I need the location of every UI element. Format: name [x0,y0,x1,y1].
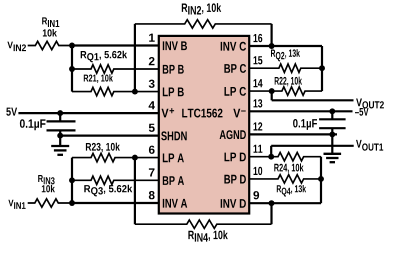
junction dot RQ4 bus [318,176,324,182]
junction dot INV C RIN2 [269,43,275,49]
label -5V [355,108,369,116]
junction dot INV D RIN4 [269,200,275,206]
pin label INV C [221,42,246,51]
pin number 4 [149,101,155,109]
capacitor 0.1uF left lead top [59,113,61,121]
wire VOUT1 tap vertical [270,146,272,157]
pin number 7 [149,168,155,176]
label RQ3, 5.62k [84,185,90,192]
junction dot INV A node [69,200,75,206]
resistor RQ2 13k to pin15 BP C [249,64,322,72]
wire 5V to pin4 V+ [18,112,158,114]
pin label SHDN [161,131,187,140]
label 5V [6,108,17,116]
pin number 12 [254,122,263,130]
label RQ2, 13k [271,50,275,57]
pin label AGND [220,130,246,139]
resistor R24 10k to pin11 LP D [249,153,321,161]
pin label LP B [163,88,184,97]
wire INV D bus vertical [320,157,322,204]
wire RIN4 bus left vertical [134,158,136,225]
junction dot LP D VOUT1 tap [268,154,274,160]
resistor R22 10k to pin14 LP C [249,87,322,95]
wire pin1 INV B from VIN2 node [70,44,159,46]
label RQ4, 13k [277,185,281,192]
label RIN4, 10k [188,231,194,239]
wire pin5 SHDN [60,135,159,137]
label RIN3 10k [38,175,43,182]
pin label INV D [221,199,246,208]
wire RIN4 bus right vertical [270,203,272,224]
wire INV C bus vertical [321,46,323,91]
capacitor 0.1uF left lead bottom [59,130,61,146]
wire VOUT2 [272,99,354,101]
label RIN2, 10k [182,4,188,12]
wire VOUT1 [271,145,354,147]
label VIN2 [7,42,12,49]
pin number 10 [254,167,263,175]
junction dot V+ decoupling [57,110,63,116]
resistor R21 10k to pin3 LP B [72,87,159,95]
label 0.1uF right [293,119,317,130]
pin number 2 [149,57,155,65]
pin label BP C [224,64,246,73]
pin number 6 [149,146,155,154]
wire INV A node column [71,158,73,203]
resistor RQ4 13k to pin10 BP D [249,175,321,183]
junction dot RQ2 bus [319,65,325,71]
junction dot SHDN ground node [57,133,63,139]
wire RIN2 bus left vertical [134,24,136,92]
label R23, 10k [86,143,120,153]
pin label INV B [163,41,187,50]
junction dot RQ1 row [69,66,75,72]
resistor RIN1 10k [28,41,70,49]
pin label BP A [163,176,184,185]
junction dot LP A to RIN4 bus [132,155,138,161]
pin label V+ part number LTC1562 pin label V- [162,109,169,118]
resistor RIN4 10k bottom [135,220,272,228]
junction dot AGND node [329,131,335,137]
label RIN1 10k [42,17,47,24]
label VOUT1 [356,140,362,148]
resistor RQ3 5.62k to pin7 BP A [72,176,159,184]
pin label LP C [225,87,247,96]
pin label LP D [225,153,246,162]
resistor RIN2 10k top [135,20,272,28]
wire INV B node column [71,46,73,92]
label 0.1uF left [20,119,46,130]
label VIN1 [8,200,13,207]
label R22, 10k [275,77,302,87]
wire VOUT2 tap vertical [271,91,273,100]
junction dot RQ3 row [69,177,75,183]
pin label LP A [163,154,184,163]
label R21, 10k [84,74,113,83]
ground symbol right [324,154,342,162]
wire pin8 INV A from VIN1 [70,202,159,204]
wire pin9 INV D [249,202,321,204]
resistor R23 10k to pin6 LP A [72,153,159,161]
capacitor 0.1uF right lead top [331,111,333,119]
pin label INV A [163,199,187,208]
resistor RIN3 10k [28,199,70,207]
pin label BP B [163,65,184,74]
junction dot LP B to RIN2 bus [132,89,138,95]
pin number 14 [254,79,263,87]
pin number 9 [253,191,259,199]
pin number 8 [149,191,155,199]
wire pin12 AGND [249,133,337,135]
capacitor 0.1uF right plates [319,119,346,128]
junction dot V- decoupling [329,108,335,114]
label RQ1, 5.62k [81,51,87,58]
pin number 1 [149,34,155,42]
capacitor 0.1uF left plates [47,121,76,130]
wire pin16 INV C [249,45,322,47]
resistor RQ1 5.62k to pin2 BP B [72,65,159,73]
pin number 3 [149,80,155,88]
wire RIN2 bus right vertical [271,24,273,46]
pin number 11 [254,145,263,153]
label R24, 10k [274,163,303,173]
junction dot INV B node [69,43,75,49]
ground symbol left [51,146,69,155]
chip body U1 LTC1562 [159,36,249,214]
pin number 5 [149,124,155,132]
pin number 15 [254,56,263,64]
pin label BP D [224,175,246,184]
pin number 13 [254,99,263,107]
label VOUT2 [356,99,362,107]
wire pin13 V- to -5V [249,110,352,112]
junction dot LP C VOUT2 tap [269,88,275,94]
capacitor 0.1uF right lead bottom [331,128,333,154]
pin number 16 [254,34,263,42]
